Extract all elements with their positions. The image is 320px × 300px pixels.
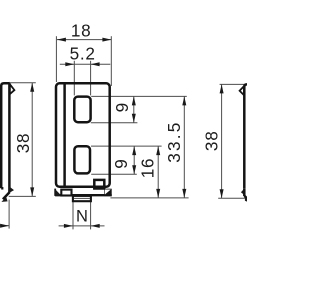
- right side view: top edge: [244, 84, 247, 188]
- dimension tail left-view thickness: [0, 225, 9, 227]
- left side view: outer wall: [1, 83, 9, 188]
- arrow 18 left: [57, 38, 66, 42]
- svg-text:9: 9: [112, 102, 132, 112]
- arrow 33.5 bottom: [182, 189, 186, 198]
- extension line top reference y96: [91, 95, 187, 97]
- arrow 16 top: [156, 146, 160, 155]
- front view: base left wedge: [55, 189, 61, 196]
- extension line slot1 bottom: [91, 122, 138, 124]
- arrow 9 lower bottom: [132, 165, 136, 174]
- extension line 5.2 right: [90, 61, 92, 96]
- front view: base bottom edge: [55, 194, 112, 196]
- arrow 16 bottom: [156, 189, 160, 198]
- left side view: top hook triangle: [10, 84, 15, 94]
- svg-text:5.2: 5.2: [70, 44, 96, 64]
- arrow left-view thickness: [0, 224, 9, 228]
- right side view: clipped foot: [245, 197, 247, 202]
- front view: base window rect: [61, 190, 71, 196]
- left side view: foot tick: [1, 187, 3, 190]
- arrow 9 lower top: [132, 146, 136, 155]
- dimension line 9 lower: [133, 146, 135, 174]
- svg-text:9: 9: [111, 158, 131, 168]
- front view: base left edge: [54, 189, 56, 196]
- svg-text:38: 38: [201, 131, 221, 152]
- left side view: inner wall edge: [8, 83, 11, 192]
- left side view: bottom diagonal: [3, 192, 10, 199]
- front view: base right cap: [104, 189, 111, 196]
- extension line 38-left bottom: [9, 195, 36, 197]
- front view: foot notch block: [94, 180, 104, 189]
- dimension line 38 left: [31, 83, 33, 197]
- dimension line 33.5: [183, 96, 185, 197]
- arrow 38-left bottom: [30, 187, 34, 196]
- extension line bottom reference y198: [110, 197, 188, 199]
- arrow N left: [64, 224, 73, 228]
- extension line 38-right top: [220, 83, 245, 85]
- arrow 9 upper top: [132, 96, 136, 105]
- svg-text:16: 16: [138, 158, 158, 179]
- extension line N left: [72, 202, 74, 230]
- dimension line 9 upper: [133, 96, 135, 122]
- svg-text:38: 38: [13, 133, 33, 154]
- extension line 38-right bottom: [218, 197, 245, 199]
- extension line 5.2 left: [73, 61, 75, 96]
- front view: lower slot: [74, 146, 90, 173]
- extension line 38-left top: [9, 82, 36, 84]
- arrow 38-left top: [30, 83, 34, 92]
- arrow 5.2 left: [65, 62, 74, 66]
- dimension line 38 right: [221, 84, 223, 198]
- svg-text:18: 18: [71, 20, 92, 40]
- extension line slot2 bottom: [91, 173, 137, 175]
- left side view: bottom hook triangle: [9, 186, 14, 193]
- arrow 18 right: [102, 38, 111, 42]
- dimension line 18: [57, 39, 112, 41]
- front view: body outline: [56, 83, 110, 187]
- dimension line 5.2: [60, 63, 111, 65]
- right side view: bottom hook triangle: [241, 188, 245, 195]
- left side view: bottom tip triangle: [1, 197, 7, 202]
- front view: bottom tab: [73, 196, 91, 201]
- extension line left-view thickness: [8, 200, 10, 229]
- front view: base right cap white wedge: [105, 190, 111, 195]
- extension line 18 left: [55, 36, 57, 82]
- dimension line N: [59, 225, 105, 227]
- arrow 9 upper bottom: [132, 114, 136, 123]
- arrow 38-right top: [220, 84, 224, 93]
- dimension line 16: [157, 146, 159, 198]
- arrow N right: [91, 224, 100, 228]
- svg-text:33.5: 33.5: [164, 120, 184, 162]
- extension line slot2 top: [91, 145, 162, 147]
- arrow 38-right bottom: [220, 189, 224, 198]
- right side view: wall lower segment: [243, 188, 246, 196]
- arrow 5.2 right: [91, 62, 100, 66]
- arrow 33.5 top: [182, 96, 186, 105]
- extension line 18 right: [110, 36, 112, 86]
- right side view: bottom diagonal tip: [244, 196, 247, 199]
- front view: inner left edge line: [63, 84, 66, 185]
- svg-text:N: N: [76, 208, 89, 226]
- extension line N right: [90, 202, 92, 230]
- front view: upper slot: [74, 97, 90, 123]
- front view: tab inner line: [74, 197, 90, 199]
- right side view: top hook triangle: [240, 86, 244, 95]
